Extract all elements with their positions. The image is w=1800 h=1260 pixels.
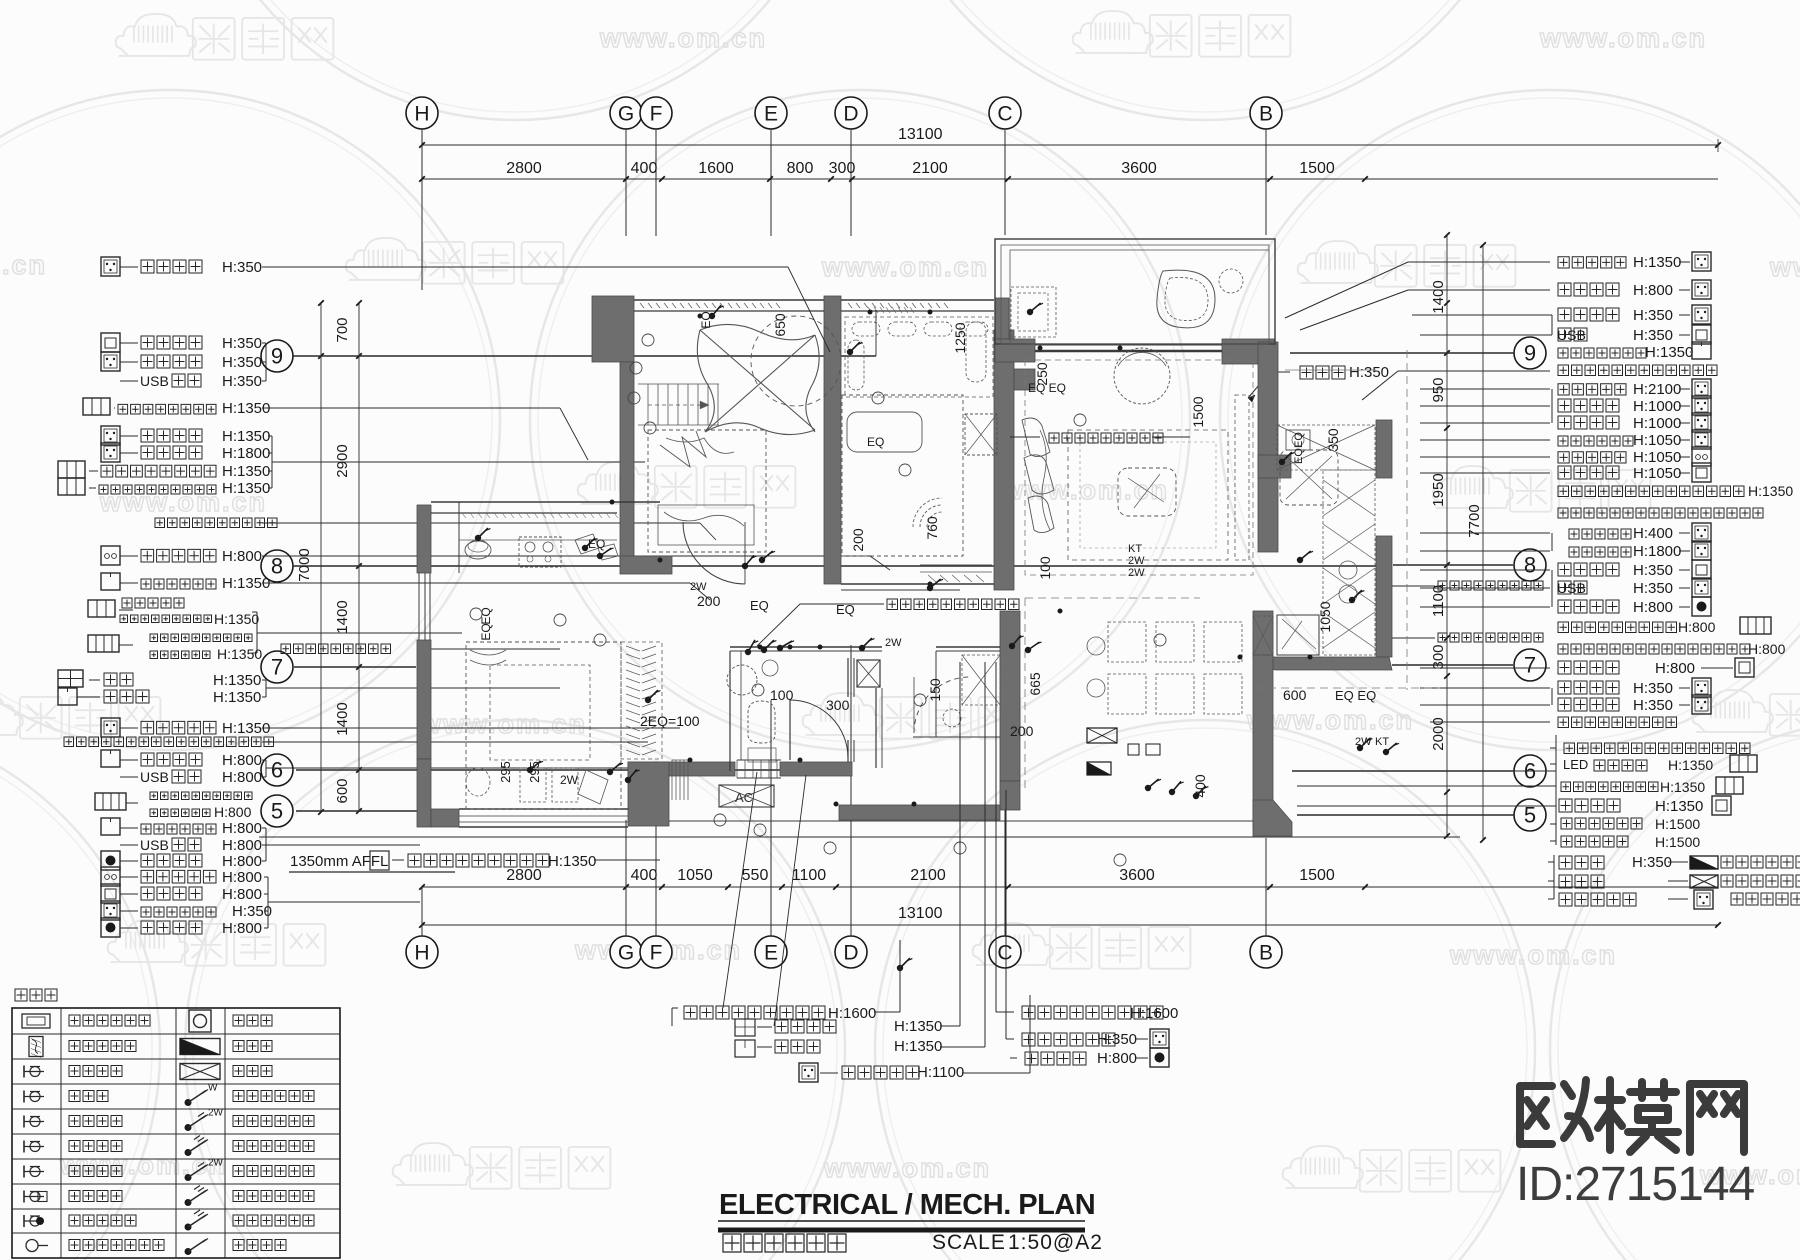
symbol sock	[1692, 678, 1711, 697]
svg-text:800: 800	[787, 160, 814, 177]
svg-text:H:800: H:800	[1748, 641, 1786, 657]
grid bubble D	[835, 936, 867, 968]
furniture: balcony washer	[1011, 287, 1056, 337]
wall: bath1 bottom	[780, 762, 852, 776]
svg-text:950: 950	[1430, 377, 1447, 402]
svg-text:1950: 1950	[1430, 473, 1447, 506]
symbol sw2	[88, 600, 115, 617]
text: chazuo381	[172, 374, 201, 387]
svg-text:1250: 1250	[952, 322, 968, 353]
text: legr-shuangliandankong	[233, 1116, 314, 1127]
svg-text:6: 6	[271, 758, 283, 783]
svg-text:H:1350: H:1350	[214, 611, 259, 627]
dimension 13100 top	[422, 144, 1718, 146]
text: yangtai-xiding	[1558, 348, 1646, 358]
svg-text:H:800: H:800	[1633, 599, 1673, 616]
svg-text:9: 9	[271, 344, 283, 369]
wall: BR2 step	[1014, 369, 1035, 390]
svg-text:H:1350: H:1350	[222, 463, 270, 480]
grid bubble G	[610, 97, 642, 129]
grid bubble 7	[1514, 649, 1546, 681]
grid bubble 8	[1514, 549, 1546, 581]
svg-text:300: 300	[829, 160, 856, 177]
symbol tv	[101, 867, 120, 886]
dimension segments top	[422, 178, 1718, 180]
svg-text:AC: AC	[735, 790, 753, 805]
svg-text:H:1600: H:1600	[828, 1005, 876, 1022]
symbol alarm	[101, 918, 120, 937]
wall line: BR2 top window	[841, 299, 994, 301]
svg-text:760: 760	[924, 516, 940, 540]
svg-text:H:1800: H:1800	[1633, 543, 1681, 560]
legend symbol swg2	[185, 1124, 192, 1131]
front door arc	[914, 677, 970, 733]
text: legr-ranqibiao	[233, 1015, 272, 1026]
text: ruodx	[1559, 875, 1604, 888]
text: dianshiji	[1558, 452, 1626, 463]
text: legr-sanliandankong	[233, 1141, 314, 1152]
text: wangluo	[141, 336, 202, 349]
grid bubble 5	[1514, 799, 1546, 831]
wall line: BR1 top window	[634, 299, 824, 301]
text: yimaojian1	[122, 598, 184, 608]
symbol alarm	[1150, 1048, 1169, 1067]
text: ranqibaojing	[1558, 508, 1763, 518]
grid bubble D	[835, 97, 867, 129]
furniture: master wardrobe herringbone	[621, 642, 662, 759]
furniture: BR1 lower bed	[648, 430, 766, 552]
symbol sw1	[101, 573, 120, 590]
svg-text:1400: 1400	[1430, 280, 1447, 313]
svg-text:H:1100: H:1100	[917, 1064, 964, 1081]
grid line F bottom stem	[655, 820, 657, 936]
legend symbol strongb	[180, 1039, 220, 1055]
legend symbol plugTV	[23, 1191, 25, 1203]
svg-text:H:1350: H:1350	[222, 480, 270, 497]
legend symbol jxbox	[26, 1240, 38, 1252]
text: beiyong	[1558, 698, 1619, 711]
device: switch	[1349, 597, 1355, 603]
svg-text:H:800: H:800	[1678, 619, 1716, 635]
text: menjinduka	[1561, 836, 1628, 847]
symbol sw3	[95, 793, 126, 810]
leader diagonals inside plan	[788, 267, 830, 352]
text: chazuo777	[172, 770, 201, 783]
svg-text:7000: 7000	[296, 548, 313, 581]
small circles (ceiling lights)	[642, 334, 654, 346]
svg-text:H:1350: H:1350	[1655, 798, 1703, 815]
svg-text:H:2100: H:2100	[1633, 381, 1681, 398]
svg-text:H:800: H:800	[222, 837, 262, 854]
svg-text:H:1600: H:1600	[1130, 1005, 1178, 1022]
svg-text:EQ: EQ	[867, 435, 884, 449]
grid bubble 9	[261, 340, 293, 372]
leader lines right column going left	[1408, 261, 1550, 263]
furniture: BR2 armchair arcs	[920, 505, 942, 527]
legend symbol intercom	[22, 1014, 50, 1028]
grid line H top stem	[421, 129, 423, 290]
device: switch	[1279, 459, 1285, 465]
text: ketingshe	[1561, 782, 1658, 792]
svg-text:H:1350: H:1350	[217, 646, 262, 662]
text: leg-dianyuanchazuo	[69, 1066, 122, 1077]
bath1 door arc	[790, 700, 848, 758]
text: USB	[1558, 328, 1587, 341]
svg-text:150: 150	[927, 678, 943, 702]
symbol sock	[1692, 305, 1711, 324]
grid bubble 7	[261, 651, 293, 683]
exterior line y821	[628, 820, 1253, 822]
svg-text:8: 8	[271, 554, 283, 579]
bottom: yuba kaiguan	[735, 1019, 755, 1036]
grid bubble F	[640, 936, 672, 968]
svg-text:H:1500: H:1500	[1655, 834, 1700, 850]
svg-text:H: H	[414, 102, 429, 125]
grid bubble B	[1250, 97, 1282, 129]
svg-text:1600: 1600	[698, 160, 734, 177]
svg-text:H:350: H:350	[1633, 580, 1673, 597]
svg-text:1500: 1500	[1190, 396, 1206, 427]
device: switch	[759, 557, 765, 563]
svg-text:USB: USB	[140, 837, 169, 853]
text: keshiduijiang	[1561, 818, 1642, 829]
symbol sock	[1692, 430, 1711, 449]
text: legr-sanlianshuangkong	[233, 1215, 314, 1226]
symbol sw3	[88, 635, 119, 652]
device: switch	[1145, 785, 1151, 791]
legend symbol plugA	[23, 1215, 25, 1227]
wall: shower corner	[875, 688, 877, 768]
svg-text:400: 400	[631, 160, 658, 177]
grid line C bottom stem	[1004, 676, 1006, 936]
text: woshi1	[150, 634, 252, 642]
text: note2	[1721, 875, 1800, 887]
logo 欧模网 (hand drawn)	[1520, 1080, 1744, 1152]
svg-text:100: 100	[770, 687, 794, 703]
svg-text:2100: 2100	[910, 867, 946, 884]
svg-text:F: F	[650, 102, 663, 125]
grid line B bottom stem	[1265, 838, 1267, 936]
text: shoudongbaojing	[141, 854, 202, 867]
device: switch	[607, 769, 613, 775]
svg-text:H:1050: H:1050	[1633, 449, 1681, 466]
text: shoudongbj	[1025, 1052, 1086, 1065]
entry steps hatch	[736, 760, 738, 778]
svg-text:H:1350: H:1350	[894, 1018, 942, 1035]
grid bubble C	[989, 97, 1021, 129]
symbol sock	[1694, 890, 1713, 909]
wall: master BR bottom foot	[431, 809, 459, 827]
svg-text:C: C	[997, 102, 1012, 125]
symbol sock	[101, 443, 120, 462]
legend symbol swg1	[185, 1248, 192, 1255]
living dashed ceiling border	[1025, 360, 1253, 575]
svg-text:G: G	[618, 941, 634, 964]
svg-text:H:800: H:800	[222, 853, 262, 870]
legend symbol swg3	[185, 1099, 192, 1106]
device: switch	[1009, 643, 1015, 649]
text: bingxiang	[1558, 681, 1619, 694]
symbol sw2	[58, 478, 85, 495]
wall: balcony left pier	[995, 298, 1009, 339]
text: note3	[1731, 893, 1800, 905]
grid line G top stem	[625, 129, 627, 236]
svg-text:1400: 1400	[334, 600, 351, 633]
BR2 bottom wall	[841, 583, 994, 585]
svg-text:H:350: H:350	[1097, 1031, 1137, 1048]
text: leg-wangluochazuo	[69, 1166, 122, 1177]
grid line F top stem	[655, 129, 657, 236]
furniture: BR2 bed	[842, 395, 963, 556]
legend symbol plugT	[23, 1141, 25, 1153]
svg-text:EQ EQ: EQ EQ	[1028, 381, 1066, 395]
svg-text:9: 9	[1524, 341, 1536, 366]
living window sill	[1035, 350, 1222, 353]
text: dianhua	[1558, 563, 1619, 576]
grid line E bottom stem	[770, 700, 772, 936]
svg-text:H:350: H:350	[1633, 697, 1673, 714]
svg-text:5: 5	[271, 799, 283, 824]
right dim chain lines	[1446, 235, 1448, 836]
furniture: BR1 canopy bed (kite)	[697, 324, 819, 434]
svg-text:300: 300	[826, 697, 850, 713]
text: USB	[1558, 581, 1587, 594]
svg-text:H:350: H:350	[222, 354, 262, 371]
symbol sock	[1692, 379, 1711, 398]
device: switch	[1383, 749, 1389, 755]
svg-text:3600: 3600	[1121, 160, 1157, 177]
svg-text:H:400: H:400	[1633, 525, 1673, 542]
symbol sock	[101, 426, 120, 445]
grid bubble B	[1250, 936, 1282, 968]
master BR left window	[418, 573, 420, 640]
symbol sock	[101, 901, 120, 920]
svg-text:2W: 2W	[1128, 567, 1145, 579]
svg-text:USB: USB	[140, 373, 169, 389]
svg-text:2W: 2W	[1128, 555, 1145, 567]
kitchen stove circles	[1339, 561, 1357, 579]
text: LEDdaikaiguan	[1594, 760, 1647, 771]
text: chazuo845	[172, 838, 201, 851]
grid bubble C	[989, 936, 1021, 968]
wall: BR1 top-left block	[592, 296, 634, 362]
balcony outline	[995, 239, 1275, 344]
svg-text:1100: 1100	[792, 867, 827, 884]
legend symbol plug	[23, 1091, 25, 1103]
text: reshuiqi	[1558, 384, 1626, 395]
svg-text:H:1350: H:1350	[1633, 254, 1681, 271]
symbol sw2	[1730, 755, 1757, 772]
svg-text:E: E	[764, 941, 778, 964]
symbol sock	[1692, 396, 1711, 415]
text: dianshiji	[141, 870, 216, 883]
text: shoudong	[1558, 600, 1619, 613]
svg-text:2W: 2W	[208, 1108, 224, 1119]
text: yimaojian2	[120, 615, 212, 623]
legend table frame	[12, 1008, 340, 1258]
hall steps	[671, 760, 673, 800]
wall: balcony piers	[995, 339, 1035, 362]
svg-text:G: G	[618, 102, 634, 125]
text: leg-qiangmiananzhuang	[69, 1240, 164, 1251]
svg-text:F: F	[650, 941, 663, 964]
wall: BR2/living divider	[994, 330, 1014, 590]
svg-text:350: 350	[1325, 428, 1341, 452]
bracket group 9	[265, 343, 267, 381]
device: switch	[1169, 789, 1175, 795]
bottom vertical leaders	[899, 940, 901, 980]
furniture: dining table	[1108, 622, 1146, 662]
svg-text:1500: 1500	[1299, 867, 1335, 884]
text: yuliuchuang	[155, 518, 277, 528]
svg-text:EQ: EQ	[750, 598, 769, 613]
text: leg-menjinduka	[69, 1041, 136, 1052]
text: xiaodugui	[1569, 529, 1631, 539]
svg-text:EQ: EQ	[479, 623, 493, 640]
symbol sock	[1692, 280, 1711, 299]
svg-text:400: 400	[631, 867, 658, 884]
svg-text:EQ: EQ	[1293, 448, 1305, 464]
bracket right 740-841	[1555, 735, 1557, 845]
legend symbol swg	[185, 1199, 192, 1206]
wall: kitchen right wall	[1376, 420, 1392, 478]
svg-text:USB: USB	[1557, 580, 1586, 596]
grid bubble E	[755, 97, 787, 129]
text: shoudongbaojing	[141, 921, 202, 934]
text: leg-fangshuichazuo	[69, 1116, 122, 1127]
device: switch	[742, 563, 748, 569]
device: switch	[1193, 793, 1199, 799]
symbol usb	[120, 380, 138, 382]
bracket left bottom group	[672, 1007, 678, 1009]
text: wangluo	[141, 887, 202, 900]
svg-text:H:800: H:800	[1633, 282, 1673, 299]
symbol sw1	[1692, 342, 1711, 359]
symbol sock	[799, 1063, 818, 1082]
symbol sw2	[58, 461, 85, 478]
svg-text:ID:2715144: ID:2715144	[1516, 1158, 1755, 1211]
symbol weak	[1690, 875, 1718, 888]
furniture: BR1 stairs	[647, 384, 649, 425]
grid bubble 9	[1514, 337, 1546, 369]
svg-text:200: 200	[850, 528, 866, 552]
text: yuba	[104, 673, 133, 686]
bottom: tianhuadeng	[735, 1040, 755, 1057]
symbol sock	[1692, 523, 1711, 542]
text: youyanji	[1569, 547, 1631, 557]
furniture: BR2 wardrobe X-box	[965, 414, 997, 455]
symbol bath	[58, 670, 83, 687]
symbol alarm	[1692, 597, 1711, 616]
svg-text:USB: USB	[140, 769, 169, 785]
device: switch	[582, 545, 588, 551]
master BR top wall	[431, 501, 660, 503]
BR1 door arc	[683, 522, 745, 584]
svg-text:H:800: H:800	[222, 869, 262, 886]
symbol net	[1692, 463, 1711, 482]
text: chufang-fangwu	[1558, 486, 1744, 497]
text: legr-shuanglianshuangkong	[233, 1191, 314, 1202]
text: qiangmianLED	[408, 854, 549, 867]
text: legr-danlianshuangkong	[233, 1166, 314, 1177]
text: leg-dianhuachazuo	[69, 1141, 122, 1152]
grid bubble E	[755, 936, 787, 968]
text: tianhua-switch	[118, 404, 216, 414]
furniture: living deco cabinet X	[1280, 450, 1338, 505]
device: switch	[897, 965, 903, 971]
svg-text:7: 7	[271, 655, 283, 680]
dashed zone border hall/dining	[1024, 598, 1026, 790]
symbol sock	[1692, 578, 1711, 597]
text: dianchuifeng	[1558, 257, 1626, 268]
text: beiyong	[1558, 399, 1619, 412]
device: switch	[625, 777, 631, 783]
text: beiyong	[141, 429, 202, 442]
text: yuliuguiti	[1049, 433, 1163, 443]
svg-text:KT: KT	[1128, 543, 1142, 555]
furniture: BR2 console	[920, 564, 992, 566]
furniture: bath1 basin circle	[727, 665, 757, 695]
svg-text:H: H	[414, 941, 429, 964]
grid line D top stem	[850, 129, 852, 236]
svg-text:USB: USB	[1557, 327, 1586, 343]
legend symbol plug	[23, 1116, 25, 1128]
text: yuliuguiti3	[1438, 633, 1543, 642]
symbol sock	[1150, 1029, 1169, 1048]
svg-text:600: 600	[334, 778, 351, 803]
leaders right rows 786/806	[1297, 785, 1550, 787]
svg-text:13100: 13100	[898, 126, 943, 143]
text: yuliuganying	[887, 599, 1019, 610]
symbol sock	[1692, 252, 1711, 271]
svg-text:665: 665	[1027, 672, 1043, 696]
diagonal leaders into plan right	[1285, 262, 1408, 318]
legend symbol plug	[23, 1066, 25, 1078]
svg-text:H:1800: H:1800	[222, 445, 270, 462]
device: switch	[645, 697, 651, 703]
svg-text:13100: 13100	[898, 905, 943, 922]
text: qiangdx	[1559, 856, 1604, 869]
svg-text:EQ EQ: EQ EQ	[1335, 688, 1376, 703]
symbol net	[1692, 325, 1711, 344]
device: switch	[527, 767, 533, 773]
svg-text:EQ: EQ	[479, 607, 493, 624]
text: tuli	[15, 989, 57, 1001]
text: yuliujingqian-R	[1022, 1006, 1163, 1019]
device: switch	[927, 585, 933, 591]
grid line C top stem	[1004, 129, 1006, 235]
svg-text:H:1000: H:1000	[1633, 415, 1681, 432]
dimension 13100 bottom	[422, 924, 1718, 926]
svg-text:H:350: H:350	[1633, 307, 1673, 324]
svg-text:H:350: H:350	[222, 259, 262, 276]
kitchen sink	[1286, 430, 1310, 450]
device: switch	[777, 645, 783, 651]
svg-text:H:1500: H:1500	[1655, 816, 1700, 832]
svg-text:SCALE: SCALE	[932, 1231, 1006, 1254]
symbol sw1	[101, 750, 120, 767]
furniture: balcony tub	[1157, 270, 1215, 328]
legend symbol swg	[185, 1224, 192, 1231]
svg-text:H:800: H:800	[222, 769, 262, 786]
svg-text:1:50@A2: 1:50@A2	[1008, 1231, 1103, 1254]
grid bubble H	[406, 936, 438, 968]
svg-text:295: 295	[498, 761, 513, 783]
wall: bath1 bottom-left band	[628, 762, 735, 776]
svg-text:H:1350: H:1350	[1645, 344, 1693, 361]
symbol ac	[1712, 796, 1731, 815]
text: dianchuifeng-b	[842, 1066, 919, 1079]
